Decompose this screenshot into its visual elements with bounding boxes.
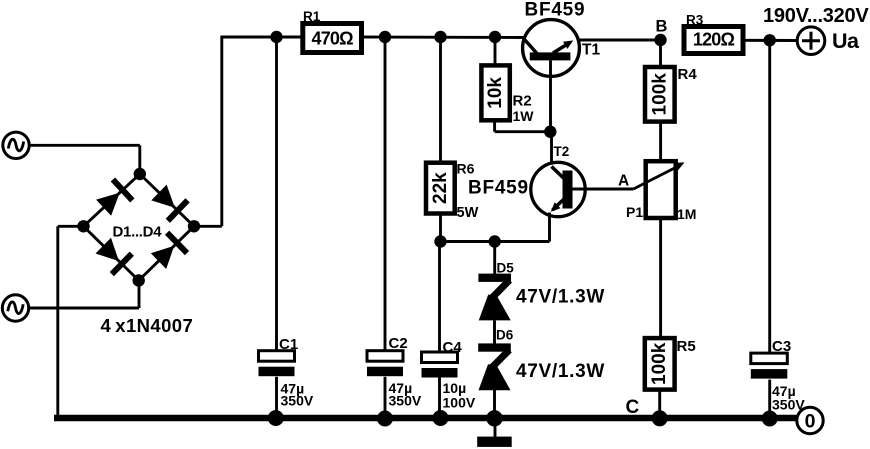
capacitor C1: [259, 351, 295, 377]
svg-text:C1: C1: [279, 336, 298, 353]
junction C3 branch: [764, 34, 776, 46]
junction R2 branch: [489, 31, 501, 43]
svg-text:10k: 10k: [485, 77, 506, 109]
junction C1 branch: [270, 31, 282, 43]
wire rail to R2: [494, 37, 497, 65]
wire bridge right node to top rail: [194, 225, 222, 228]
svg-text:47V/1.3W: 47V/1.3W: [516, 361, 605, 382]
bridge arm wires: [84, 174, 140, 226]
svg-text:Ua: Ua: [832, 29, 860, 53]
junction C4/rail: [433, 410, 449, 426]
svg-text:R4: R4: [678, 66, 698, 83]
junction C2 branch: [379, 31, 391, 43]
svg-text:470Ω: 470Ω: [312, 29, 354, 49]
ground rail (thick): [54, 415, 797, 421]
wire C3 branch vertical: [768, 40, 771, 353]
junction R6/C4: [434, 235, 446, 247]
wire rail to R6: [439, 37, 442, 163]
wire node row to D5: [493, 242, 496, 275]
wire upper AC to bridge top: [29, 144, 140, 147]
junction C2/rail: [377, 411, 393, 427]
capacitor C3: [751, 353, 788, 379]
junction C1/rail: [268, 410, 284, 426]
wire C1 to rail: [275, 377, 278, 418]
svg-text:C2: C2: [389, 335, 408, 352]
resistor R3: [684, 27, 743, 54]
wire T2 base to node A / P1 wiper: [573, 188, 634, 191]
wire C2 to rail: [384, 377, 387, 418]
junction C3/rail: [762, 411, 778, 427]
capacitor C2: [367, 351, 403, 377]
svg-text:BF459: BF459: [468, 178, 529, 199]
svg-text:C3: C3: [772, 338, 791, 355]
AC source upper: [3, 132, 29, 158]
wire lower AC to bridge bottom: [29, 307, 139, 310]
svg-text:D6: D6: [496, 328, 514, 343]
wire B to R4: [659, 40, 662, 67]
node bridge top: [134, 168, 146, 180]
svg-text:22k: 22k: [430, 172, 451, 204]
wire T1 base down: [549, 60, 552, 131]
node bridge left: [77, 220, 89, 232]
svg-text:47V/1.3W: 47V/1.3W: [516, 287, 605, 308]
svg-text:5W: 5W: [457, 205, 479, 221]
diode D1 (bridge upper-left): [96, 180, 132, 216]
wire C2 branch vertical: [384, 37, 387, 351]
svg-text:R6: R6: [457, 161, 475, 177]
svg-text:D1...D4: D1...D4: [113, 224, 163, 241]
output terminal 0: [797, 407, 823, 433]
resistor R2: [481, 65, 509, 120]
diode D4 (bridge lower-right): [151, 233, 187, 269]
svg-text:A: A: [618, 173, 629, 190]
wire C4 to rail: [438, 377, 441, 418]
svg-text:120Ω: 120Ω: [693, 30, 735, 50]
resistor R6: [426, 163, 455, 214]
svg-text:100k: 100k: [649, 342, 670, 385]
wire D5 to D6: [493, 320, 496, 343]
wire C1 branch vertical: [275, 37, 278, 351]
svg-text:4 x1N4007: 4 x1N4007: [101, 315, 194, 336]
svg-text:100V: 100V: [443, 395, 476, 411]
svg-text:R1: R1: [303, 9, 321, 24]
potentiometer P1: [634, 161, 685, 218]
resistor R1: [303, 24, 362, 53]
junction D5: [489, 235, 501, 247]
svg-text:C: C: [626, 397, 640, 418]
capacitor C4: [422, 352, 458, 378]
svg-text:BF459: BF459: [525, 0, 586, 21]
wire R4 to P1: [659, 122, 662, 162]
wire T2 collector: [550, 132, 553, 170]
transistor T2 BF459: [531, 162, 585, 216]
junction T1 base / R2 / T2 collector: [544, 126, 556, 138]
wire C3 to rail: [768, 380, 771, 419]
wire T2 emitter down: [548, 213, 551, 242]
wire bridge left node to ground rail: [58, 225, 84, 228]
junction R5/rail: [652, 410, 668, 426]
svg-text:R3: R3: [686, 13, 704, 28]
node B: [654, 34, 666, 46]
svg-text:100k: 100k: [649, 73, 670, 116]
diode D3 (bridge lower-left): [96, 238, 132, 274]
wire R2 bottom to T1 base node: [493, 120, 496, 131]
svg-text:R5: R5: [677, 338, 696, 355]
node bridge bottom: [133, 274, 145, 286]
junction R6 branch: [434, 31, 446, 43]
zener diode D6: [478, 343, 511, 390]
svg-text:T2: T2: [554, 144, 570, 159]
wire P1 to R5: [659, 218, 662, 338]
svg-text:D5: D5: [497, 261, 515, 276]
svg-text:T1: T1: [582, 42, 600, 59]
output terminal + (Ua): [797, 27, 825, 55]
svg-text:C4: C4: [443, 339, 463, 356]
wire D6 to rail: [493, 390, 496, 419]
wire zener node row: [441, 240, 550, 243]
svg-text:190V...320V: 190V...320V: [763, 5, 869, 27]
diode D2 (bridge upper-right): [151, 185, 187, 221]
node bridge right: [188, 220, 200, 232]
wire R6 to node row: [439, 214, 442, 242]
wire top rail R1 to T1: [362, 36, 524, 39]
svg-text:B: B: [656, 18, 668, 36]
wire R3 to output: [743, 39, 797, 42]
zener diode D5: [478, 274, 511, 321]
junction D6/ground: [486, 410, 502, 426]
svg-text:P1: P1: [626, 204, 643, 220]
wire R5 to rail: [658, 390, 661, 418]
wire C4 branch: [438, 242, 441, 353]
svg-text:1M: 1M: [677, 206, 696, 222]
wire top rail left of R1: [220, 36, 303, 39]
svg-text:0: 0: [805, 410, 816, 432]
resistor R5: [645, 338, 675, 390]
svg-text:350V: 350V: [281, 393, 314, 409]
svg-text:1W: 1W: [513, 108, 535, 124]
ground symbol: [477, 421, 512, 447]
transistor T1 BF459: [523, 20, 580, 77]
svg-text:350V: 350V: [389, 393, 422, 409]
resistor R4: [645, 67, 675, 122]
AC source lower: [2, 295, 28, 321]
wire T1 emitter to node B: [579, 39, 661, 42]
